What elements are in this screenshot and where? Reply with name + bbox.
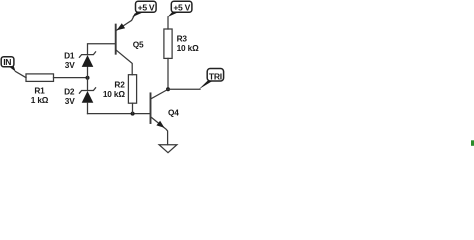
resistor R1 [26, 74, 54, 105]
wire IN to R1 [15, 71, 26, 77]
node A junction [86, 76, 90, 80]
node C junction (Q4 collector) [166, 87, 170, 91]
net flag TRI [199, 69, 224, 90]
svg-text:R2: R2 [114, 80, 125, 90]
svg-text:+5 V: +5 V [173, 2, 190, 12]
wire node A to D1 [87, 67, 89, 78]
zener diode D2 [64, 87, 96, 107]
svg-text:10 kΩ: 10 kΩ [177, 43, 200, 53]
wire D1 to Q5 base [88, 44, 115, 55]
wire R3 to node C [167, 58, 169, 89]
transistor Q5 [116, 14, 144, 74]
svg-text:IN: IN [3, 57, 11, 67]
resistor R2 [103, 75, 137, 104]
wire R2 to rail [132, 103, 134, 113]
svg-text:3V: 3V [65, 96, 75, 106]
wire D2 to bottom rail [87, 103, 89, 114]
node B junction (R2 / rail) [131, 112, 135, 116]
svg-text:Q5: Q5 [133, 39, 144, 49]
net flag IN [1, 57, 15, 72]
svg-text:D1: D1 [64, 51, 75, 61]
wire node C to TRI [168, 88, 200, 90]
svg-text:1 kΩ: 1 kΩ [31, 95, 49, 105]
svg-text:TRI: TRI [209, 71, 222, 81]
svg-text:R3: R3 [177, 34, 188, 44]
resistor R3 [164, 29, 199, 58]
wire bottom rail to Q4 base [88, 113, 151, 115]
power flag +5V (Q5) [132, 1, 156, 17]
wire node A to D2 [87, 78, 89, 91]
svg-text:3V: 3V [65, 60, 75, 70]
transistor Q4 [151, 89, 180, 144]
wire R1 to node A [54, 77, 88, 79]
wire +5V to R3 [167, 17, 169, 29]
svg-text:+5 V: +5 V [138, 2, 155, 12]
zener diode D1 [64, 51, 96, 71]
svg-text:10 kΩ: 10 kΩ [103, 89, 126, 99]
ground [159, 145, 177, 153]
svg-text:Q4: Q4 [168, 107, 179, 117]
svg-text:D2: D2 [64, 87, 75, 97]
power flag +5V (R3) [168, 1, 192, 17]
